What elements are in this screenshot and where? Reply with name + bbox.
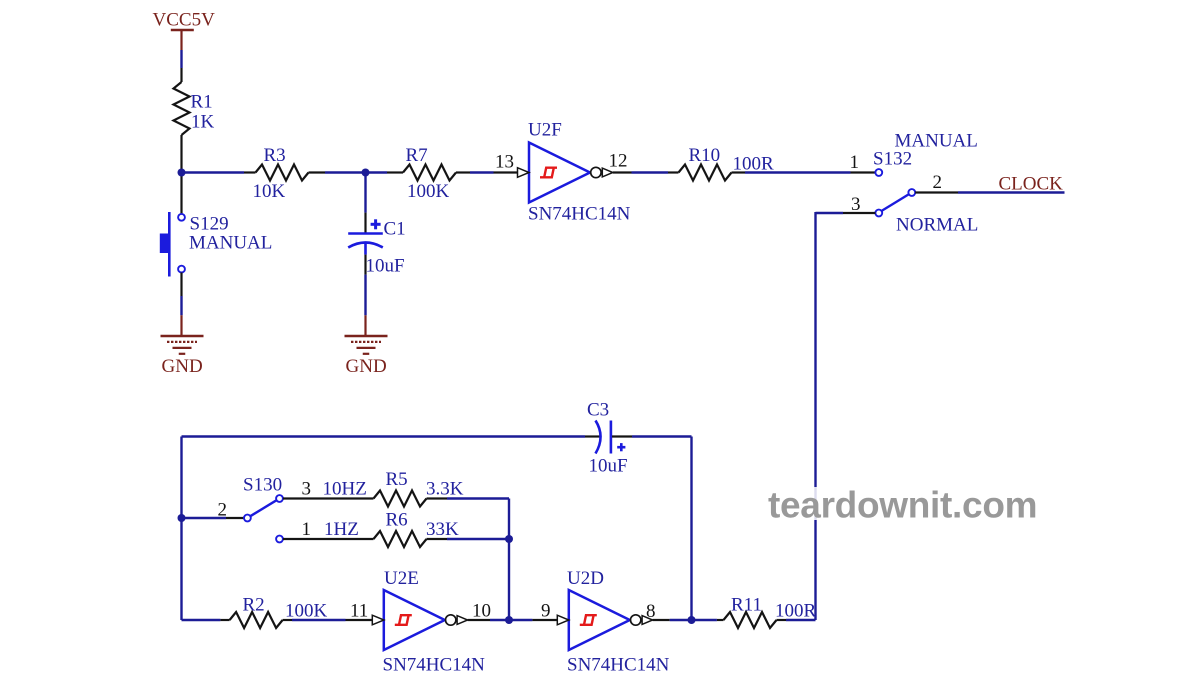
svg-text:SN74HC14N: SN74HC14N xyxy=(383,655,486,675)
resistor R5 xyxy=(374,491,448,507)
wire node C to U2D xyxy=(509,619,532,621)
resistor R2 xyxy=(220,612,292,628)
wire top loop to C3 xyxy=(182,435,586,437)
pin 1 stub S130 xyxy=(283,538,374,540)
svg-text:2: 2 xyxy=(218,500,228,521)
capacitor C1 xyxy=(348,213,383,275)
wire bottom left to R2 xyxy=(182,619,221,621)
op-amp U2D inverter xyxy=(557,590,652,650)
wire C3 to right corner xyxy=(632,435,692,437)
svg-text:2: 2 xyxy=(933,172,943,193)
wire S129 to GND xyxy=(180,296,182,315)
wire CLOCK xyxy=(958,191,1065,193)
pin 2 stub S132 xyxy=(915,191,958,193)
svg-text:12: 12 xyxy=(609,151,628,172)
svg-text:U2F: U2F xyxy=(528,120,562,141)
pin 10 stub xyxy=(468,619,490,621)
wire left vertical to S130 xyxy=(182,517,227,519)
svg-text:SN74HC14N: SN74HC14N xyxy=(528,204,631,225)
svg-text:100K: 100K xyxy=(285,601,328,622)
svg-text:11: 11 xyxy=(350,601,368,622)
junction node B xyxy=(362,169,370,177)
pin 9 stub xyxy=(532,619,557,621)
svg-text:SN74HC14N: SN74HC14N xyxy=(567,655,670,675)
switch S132 lever xyxy=(882,194,909,211)
watermark backdrop xyxy=(766,487,1039,520)
wire R7 to U2F pin 13 xyxy=(470,171,494,173)
svg-text:100K: 100K xyxy=(407,181,450,202)
svg-text:10: 10 xyxy=(472,601,491,622)
pin 8 stub xyxy=(653,619,670,621)
wire node B to C1 xyxy=(364,173,366,213)
svg-text:S129: S129 xyxy=(190,214,229,235)
resistor R1 xyxy=(174,68,190,173)
wire R10 to S132 pin 1 xyxy=(745,171,851,173)
resistor R3 xyxy=(244,165,325,181)
svg-text:3: 3 xyxy=(302,479,312,500)
wire R3 to node B xyxy=(325,171,366,173)
svg-text:1K: 1K xyxy=(191,112,215,133)
wire node B to R7 xyxy=(366,171,388,173)
ground stem S129 xyxy=(180,315,182,336)
pin 11 stub xyxy=(346,619,373,621)
switch S130 pin 1 xyxy=(276,536,283,543)
junction node D xyxy=(688,616,696,624)
switch S132 pin 2 xyxy=(908,189,915,196)
plus sign C3 xyxy=(617,443,625,451)
wire U2E to node C xyxy=(490,619,509,621)
svg-text:R11: R11 xyxy=(731,595,762,616)
svg-text:U2E: U2E xyxy=(384,568,419,589)
capacitor C3 xyxy=(585,421,632,454)
svg-text:R6: R6 xyxy=(386,510,408,531)
svg-text:R3: R3 xyxy=(264,145,286,166)
wire R5R6 vertical xyxy=(508,499,510,621)
wire vertical to R11 xyxy=(814,212,816,620)
svg-text:teardownit.com: teardownit.com xyxy=(768,485,1037,526)
switch S132 pin 1 xyxy=(875,169,882,176)
switch S130 lever xyxy=(250,500,276,516)
wire VCC to R1 xyxy=(180,50,182,68)
resistor R7 xyxy=(387,165,470,181)
svg-text:MANUAL: MANUAL xyxy=(189,233,272,254)
pushbutton S129 pins xyxy=(178,173,185,297)
svg-text:8: 8 xyxy=(646,601,656,622)
wire C3 vertical xyxy=(690,437,692,621)
pin 13 stub xyxy=(494,171,518,173)
wire R11 to right vertical xyxy=(786,619,816,621)
svg-text:10uF: 10uF xyxy=(366,256,405,277)
pin 12 stub xyxy=(613,171,632,173)
svg-text:S132: S132 xyxy=(873,149,912,170)
svg-text:R10: R10 xyxy=(689,145,721,166)
pushbutton S129 actuator xyxy=(160,212,170,277)
svg-text:C1: C1 xyxy=(384,219,406,240)
svg-text:GND: GND xyxy=(346,356,387,377)
svg-text:1HZ: 1HZ xyxy=(324,519,359,540)
wire R2 to U2E xyxy=(292,619,346,621)
wire U2F to R10 xyxy=(632,171,669,173)
svg-text:R2: R2 xyxy=(243,595,265,616)
svg-text:10HZ: 10HZ xyxy=(323,479,367,500)
svg-text:U2D: U2D xyxy=(567,568,604,589)
svg-text:10K: 10K xyxy=(253,181,286,202)
svg-text:R5: R5 xyxy=(386,469,408,490)
svg-text:33K: 33K xyxy=(426,519,459,540)
op-amp U2F inverter xyxy=(518,143,613,203)
junction node A xyxy=(178,169,186,177)
ground stem C1 xyxy=(364,315,366,336)
switch S132 pin 3 xyxy=(875,210,882,217)
junction U2E output xyxy=(505,616,513,624)
wire S132 pin3 to vertical xyxy=(816,212,844,214)
svg-text:R7: R7 xyxy=(406,145,428,166)
junction R5 R6 xyxy=(505,535,513,543)
resistor R11 xyxy=(717,612,786,628)
svg-text:10uF: 10uF xyxy=(589,456,628,477)
svg-text:1: 1 xyxy=(850,152,860,173)
svg-text:C3: C3 xyxy=(587,400,609,421)
pin 3 stub S130 xyxy=(283,497,374,499)
svg-text:MANUAL: MANUAL xyxy=(895,131,978,152)
pin 1 stub S132 xyxy=(851,171,876,173)
svg-text:VCC5V: VCC5V xyxy=(153,10,216,31)
switch S130 pin 3 xyxy=(276,495,283,502)
ground GND C1 xyxy=(345,336,388,354)
pin 3 stub S132 xyxy=(843,212,875,214)
switch S130 pin 2 xyxy=(244,515,251,522)
svg-text:3: 3 xyxy=(851,194,861,215)
wire left vertical xyxy=(180,437,182,621)
wire node D to R11 xyxy=(692,619,717,621)
wire node A to R3 xyxy=(182,171,245,173)
svg-text:100R: 100R xyxy=(775,601,817,622)
pin 2 stub S130 xyxy=(226,517,244,519)
ground GND S129 xyxy=(161,336,204,354)
svg-text:NORMAL: NORMAL xyxy=(896,215,978,236)
wire R6 to vertical xyxy=(447,538,509,540)
svg-text:GND: GND xyxy=(162,356,203,377)
wire R5 to vertical xyxy=(447,497,509,499)
svg-text:1: 1 xyxy=(302,519,312,540)
svg-text:R1: R1 xyxy=(191,92,213,113)
op-amp U2E inverter xyxy=(372,590,467,650)
svg-text:S130: S130 xyxy=(243,475,282,496)
power VCC5V symbol xyxy=(171,30,194,50)
svg-text:3.3K: 3.3K xyxy=(426,479,464,500)
svg-text:9: 9 xyxy=(541,601,551,622)
wire C1 to GND xyxy=(364,275,366,316)
resistor R10 xyxy=(668,165,745,181)
junction S130 tap xyxy=(178,514,186,522)
svg-text:13: 13 xyxy=(495,152,514,173)
plus sign C1 xyxy=(371,219,381,229)
resistor R6 xyxy=(374,531,448,547)
svg-text:CLOCK: CLOCK xyxy=(999,174,1064,195)
wire U2D to node D xyxy=(670,619,692,621)
